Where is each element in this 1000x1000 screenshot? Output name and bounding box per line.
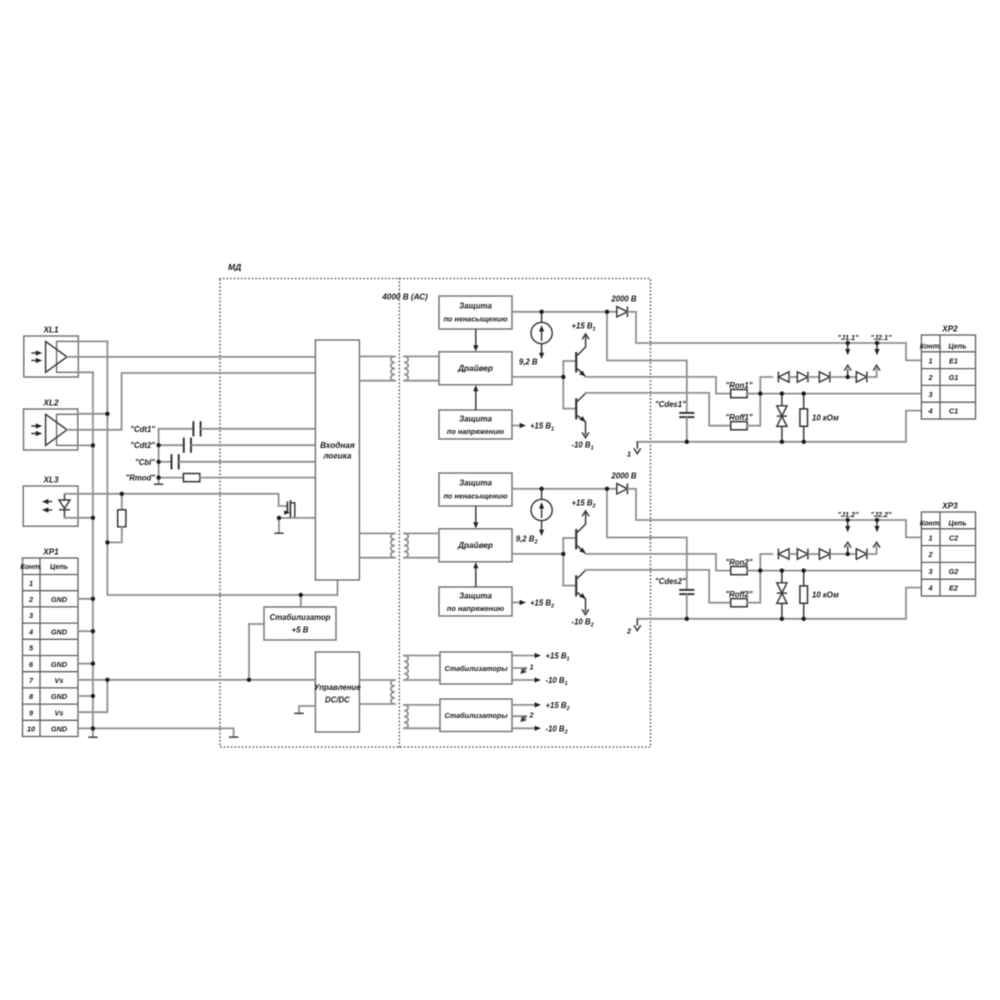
svg-text:4: 4	[927, 407, 932, 416]
XL2 light input arrows	[31, 425, 39, 427]
svg-text:2000 В: 2000 В	[610, 295, 637, 304]
svg-text:"Cdes1": "Cdes1"	[655, 400, 686, 409]
capacitor Cdt2	[184, 438, 191, 453]
arrow +15V supply ch2	[582, 511, 589, 516]
wire turn-on path ch1	[586, 377, 731, 394]
svg-text:Управление: Управление	[314, 683, 361, 692]
junction suppressor bottom node ch2	[780, 617, 784, 621]
svg-text:4000 В (АС): 4000 В (АС)	[381, 293, 428, 302]
stabilizer ch1 common output	[512, 667, 526, 669]
svg-text:Vs: Vs	[55, 708, 64, 717]
wire XL3 anode to MOSFET gate	[65, 494, 287, 506]
svg-text:Цепь: Цепь	[50, 562, 68, 571]
transistor upper (turn-on) ch2	[563, 513, 585, 554]
wire collector-sense to XP3 pin1	[628, 489, 921, 538]
junction MOSFET source node	[277, 516, 281, 520]
wire XP1 pin2 GND stub	[78, 598, 93, 600]
junction 10k / emitter rail ch2	[802, 617, 806, 621]
svg-text:C1: C1	[949, 407, 958, 416]
junction XL3 anode / resistor node	[120, 492, 124, 496]
svg-text:Стабилизаторы: Стабилизаторы	[444, 711, 508, 720]
junction jumper J2.1 / sense line	[875, 341, 879, 345]
resistor body on XL3 line	[118, 510, 126, 527]
wire XP1 pin4 GND stub	[78, 630, 93, 632]
svg-text:10 кОм: 10 кОм	[812, 414, 839, 423]
svg-text:"J2.2": "J2.2"	[870, 510, 892, 519]
wire logic to transformer bottom ch2	[359, 557, 395, 559]
connector XP3 table	[921, 512, 975, 596]
svg-text:E1: E1	[949, 356, 958, 365]
svg-text:Цепь: Цепь	[948, 518, 966, 527]
stabilizers block ch1	[440, 652, 512, 684]
voltage protection output arrow ch1	[512, 425, 520, 427]
svg-text:2: 2	[28, 595, 33, 604]
diode D3 chain ch2	[819, 549, 830, 560]
junction bus / Cbl	[156, 460, 160, 464]
voltage protection block ch2	[439, 587, 512, 616]
svg-text:1: 1	[530, 663, 534, 672]
wire transformer to driver bottom ch2	[404, 557, 439, 559]
wire XL3 cathode to ground bus	[65, 517, 93, 519]
diode 2000V ch2	[617, 483, 628, 494]
wire chain seg1 ch1	[789, 376, 797, 378]
diode D1 chain ch1	[778, 372, 789, 383]
svg-text:4: 4	[28, 627, 33, 636]
junction driver output node ch1	[561, 375, 565, 379]
svg-text:+5 В: +5 В	[292, 626, 309, 635]
wire 10k bottom lead ch1	[803, 426, 805, 442]
wire Ron1 to gate node	[747, 393, 760, 395]
resistor Roff1	[731, 422, 747, 430]
floating common 1 symbol	[636, 442, 638, 449]
arrow voltage protection to driver ch2	[475, 565, 477, 587]
stabilizer +5V block	[264, 607, 336, 640]
junction driver output node ch2	[561, 552, 565, 556]
wire desat sense line ch1	[512, 311, 615, 313]
wire Cdt1 to input logic	[201, 428, 315, 430]
wire base bus ch2	[562, 538, 564, 586]
wire Cdt2 left segment	[159, 444, 183, 446]
jumper J1.2 arrows	[847, 520, 849, 527]
svg-text:Конт.: Конт.	[20, 562, 42, 571]
wire gate node to XP3 pin3	[760, 570, 921, 572]
arrow -10V supply ch2	[582, 609, 589, 614]
wire Cbl left segment	[159, 461, 171, 463]
jumper J1.1 arrows	[847, 343, 849, 350]
svg-text:GND: GND	[51, 725, 68, 734]
ground symbol inside module	[229, 736, 238, 738]
svg-text:по ненасыщению: по ненасыщению	[443, 492, 508, 501]
svg-text:по напряжению: по напряжению	[447, 604, 505, 613]
junction resistor / supply bus	[105, 540, 109, 544]
resistor Roff2	[731, 599, 747, 607]
wire MOSFET source to ground	[278, 518, 280, 533]
connector XP2 table	[921, 335, 975, 419]
junction XP1 pin4 / ground bus	[91, 629, 95, 633]
diode D2 chain ch1	[797, 372, 808, 383]
junction suppressor top node ch1	[780, 391, 784, 395]
wire DC/DC ground stub	[299, 706, 315, 713]
wire Ron2 to gate node	[747, 570, 760, 572]
junction Vs pin7 / pin9 tie	[105, 678, 109, 682]
arrow voltage protection to driver ch1	[475, 388, 477, 410]
wire XP1 pin9 Vs stub	[78, 680, 107, 712]
wire chain seg3 ch2	[831, 553, 857, 555]
wire XL2 ground pin to bus	[78, 444, 93, 446]
svg-text:1: 1	[627, 450, 631, 459]
svg-text:3: 3	[928, 567, 932, 576]
svg-text:1: 1	[928, 533, 932, 542]
wire secondary 2 bottom to stabilizers 2	[404, 727, 440, 729]
XL1 light input arrows	[31, 352, 39, 354]
wire logic to transformer bottom ch1	[359, 380, 395, 382]
wire +5V stabilizer top lead	[300, 595, 302, 607]
floating common 2 symbol	[636, 619, 638, 626]
svg-text:C2: C2	[949, 533, 958, 542]
wire XP1 pin10 GND to module ground	[78, 728, 234, 736]
capacitor Cbl	[172, 454, 179, 469]
wire Roff1 to gate node	[747, 394, 760, 426]
galvanic isolation dotted line 4000 V	[398, 279, 400, 748]
wire emitter rail to XP2 pin4	[637, 411, 921, 442]
ground symbol under Cdt bus	[154, 483, 163, 485]
diode D2 chain ch2	[797, 549, 808, 560]
svg-text:Стабилизаторы: Стабилизаторы	[444, 664, 508, 673]
wire Cdes branch lower ch2	[686, 595, 688, 619]
wire driver output ch2	[512, 553, 563, 555]
XL3 light output arrows	[46, 501, 53, 503]
svg-text:по напряжению: по напряжению	[447, 427, 505, 436]
connector XL2 housing	[24, 409, 78, 450]
wire chain seg3 ch1	[831, 376, 857, 378]
svg-text:2: 2	[529, 711, 534, 720]
svg-text:Защита: Защита	[459, 592, 492, 601]
wire Cdt1 left segment	[159, 428, 193, 430]
svg-text:G1: G1	[949, 373, 959, 382]
svg-text:XP1: XP1	[42, 548, 59, 557]
wire secondary 1 bottom to stabilizers 1	[404, 679, 440, 681]
diode D4 chain ch2	[856, 549, 867, 560]
wire net Vs from XP1 pin7 to DC/DC control	[78, 679, 315, 681]
svg-text:"Cdt2": "Cdt2"	[130, 441, 155, 450]
ground symbol under bus	[88, 736, 97, 738]
desaturation protection block ch1	[439, 296, 512, 329]
svg-text:G2: G2	[949, 567, 959, 576]
connector XP1 table	[23, 558, 79, 737]
svg-text:"Roff1": "Roff1"	[725, 413, 752, 422]
svg-text:DC/DC: DC/DC	[325, 696, 350, 705]
svg-text:3: 3	[928, 390, 932, 399]
arrow -10V supply ch1	[582, 432, 589, 437]
junction rail / +5V stabilizer top	[299, 593, 303, 597]
stabilizer ch2 common output	[512, 715, 526, 717]
svg-text:9,2 В: 9,2 В	[519, 358, 538, 367]
stabilizer ch1 output +15	[512, 655, 534, 657]
svg-text:2: 2	[927, 373, 932, 382]
svg-text:GND: GND	[51, 660, 68, 669]
wire XL1 supply pin to bus	[78, 340, 107, 342]
wire chain seg2 ch2	[809, 553, 820, 555]
transistor lower (turn-off) ch2	[563, 570, 585, 612]
junction XP1 pin2 / ground bus	[91, 597, 95, 601]
junction Cdes1 / emitter rail	[685, 440, 689, 444]
svg-text:XP2: XP2	[941, 325, 958, 334]
wire turn-off path ch2	[586, 570, 731, 603]
svg-text:XL1: XL1	[42, 326, 58, 335]
svg-text:"Cbl": "Cbl"	[135, 458, 155, 467]
junction gate node ch2	[758, 568, 762, 572]
transistor lower (turn-off) ch1	[563, 393, 585, 435]
svg-text:XL2: XL2	[42, 399, 58, 408]
junction XL2 ground pin / bus	[91, 443, 95, 447]
wire chain seg2 ch1	[809, 376, 820, 378]
svg-text:3: 3	[29, 611, 33, 620]
arrow +15V supply ch1	[582, 334, 589, 339]
wire DC/DC to primary bottom	[359, 703, 395, 705]
wire emitter rail to XP3 pin4	[637, 588, 921, 619]
XL2 receiver sub-block	[57, 414, 78, 445]
junction XP1 pin8 / ground bus	[91, 694, 95, 698]
stabilizer ch1 output -10	[512, 679, 534, 681]
junction jumper tap J1 ch2	[846, 552, 850, 556]
wire XP1 pin6 GND stub	[78, 663, 93, 665]
XL3 transmitter LED	[59, 500, 70, 509]
current source 9,2 V ch1	[531, 312, 552, 344]
wire Cdes branch lower ch1	[686, 418, 688, 442]
wire chain end to jumper J2 ch1	[868, 369, 877, 377]
wire chain seg1 ch2	[789, 553, 797, 555]
jumper J2.1 arrows	[876, 343, 878, 350]
junction gate node ch1	[758, 391, 762, 395]
module MD dashed boundary	[220, 279, 651, 748]
wire secondary 2 top to stabilizers 2	[404, 704, 440, 706]
junction current source tap ch2	[539, 487, 543, 491]
junction XL3 cathode / bus	[91, 516, 95, 520]
svg-text:4: 4	[927, 584, 932, 593]
wire 10k bottom lead ch2	[803, 603, 805, 619]
junction 10k top node ch1	[802, 391, 806, 395]
svg-text:GND: GND	[51, 595, 68, 604]
svg-text:"Cdt1": "Cdt1"	[130, 425, 155, 434]
wire XL1 output to input logic	[67, 356, 315, 358]
XL1 receiver sub-block	[57, 341, 79, 372]
wire Cdes branch upper ch1	[607, 312, 687, 412]
capacitor Cdt1	[193, 421, 200, 436]
diode D3 chain ch1	[819, 372, 830, 383]
svg-text:1: 1	[928, 356, 932, 365]
XL2 receiver amplifier triangle	[46, 414, 67, 445]
transformer DC/DC secondary winding 1	[404, 656, 408, 680]
DC/DC control block	[315, 652, 359, 732]
svg-text:1: 1	[29, 579, 33, 588]
resistor Ron2	[731, 567, 747, 575]
svg-text:"Rmod": "Rmod"	[126, 474, 156, 483]
junction 10k top node ch2	[802, 568, 806, 572]
voltage protection block ch1	[439, 410, 512, 439]
svg-text:2: 2	[626, 627, 631, 636]
svg-text:Защита: Защита	[459, 415, 492, 424]
wire XP1 pin8 GND stub	[78, 695, 93, 697]
junction Cdes tap ch1	[605, 310, 609, 314]
MOSFET source arrow	[284, 510, 290, 514]
svg-text:2: 2	[927, 550, 932, 559]
driver block ch1	[439, 352, 512, 385]
wire transformer to driver bottom ch1	[404, 380, 439, 382]
junction jumper J1.2 / sense line	[846, 518, 850, 522]
capacitor Cdes1	[679, 413, 694, 417]
junction jumper J2.2 / sense line	[875, 518, 879, 522]
junction Cdes tap ch2	[605, 487, 609, 491]
junction jumper J1.1 / sense line	[846, 341, 850, 345]
resistor Rmod	[183, 474, 199, 482]
wire Cdes branch upper ch2	[607, 489, 687, 589]
arrow desat protection to driver ch1	[475, 329, 477, 348]
wire transformer to driver top ch2	[404, 532, 439, 534]
junction current source tap ch1	[539, 310, 543, 314]
svg-text:10: 10	[27, 725, 35, 734]
svg-text:E2: E2	[949, 584, 958, 593]
transistor upper (turn-on) ch1	[563, 336, 585, 377]
junction XP1 pin6 / ground bus	[91, 661, 95, 665]
stabilizer ch2 output -10	[512, 727, 534, 729]
transformer signal ch2	[391, 533, 408, 557]
svg-text:XL3: XL3	[42, 476, 58, 485]
connector XL3 housing	[23, 486, 78, 526]
svg-text:"Cdes2": "Cdes2"	[655, 577, 686, 586]
svg-text:Защита: Защита	[459, 479, 492, 488]
capacitor Cdes2	[679, 590, 694, 594]
stabilizer ch2 output +15	[512, 704, 534, 706]
net Cdt bus vertical	[158, 429, 160, 483]
wire XL2 output to input logic	[67, 373, 315, 430]
wire ground bus vertical	[92, 372, 94, 736]
wire turn-on path ch2	[586, 554, 731, 571]
voltage protection output arrow ch2	[512, 602, 520, 604]
wire Roff2 to gate node	[747, 571, 760, 603]
ground symbol at MOSFET source	[274, 532, 283, 534]
svg-text:Входная: Входная	[320, 441, 355, 450]
junction bus / Rmod	[156, 475, 160, 479]
stabilizers block ch2	[440, 699, 512, 732]
wire driver output ch1	[512, 376, 563, 378]
transistor MOSFET input-blocking	[287, 500, 294, 518]
diode 2000V ch1	[617, 306, 628, 317]
wire resistor top lead	[121, 494, 123, 510]
suppressor (bidirectional zener) ch1	[777, 394, 787, 442]
svg-text:Драйвер: Драйвер	[457, 364, 493, 373]
wire XL1 ground pin to bus	[78, 371, 93, 373]
svg-text:"J2.1": "J2.1"	[870, 333, 892, 342]
wire 10k top lead ch1	[803, 394, 805, 409]
diode D1 chain ch2	[778, 549, 789, 560]
wire Vs branch to +5V stabilizer	[249, 624, 264, 680]
junction suppressor top node ch2	[780, 568, 784, 572]
resistor Ron1	[731, 390, 747, 398]
junction suppressor bottom node ch1	[780, 440, 784, 444]
input logic block (Входная логика)	[315, 340, 359, 580]
wire desat sense line ch2	[512, 488, 615, 490]
current source 9,2 V ch2	[531, 489, 552, 521]
wire secondary 1 top to stabilizers 1	[404, 655, 440, 657]
desaturation protection block ch2	[439, 473, 512, 506]
wire DC/DC to primary top	[359, 679, 395, 681]
junction Cdes2 / emitter rail	[685, 617, 689, 621]
svg-text:2000 В: 2000 В	[610, 472, 637, 481]
XL1 receiver amplifier triangle	[46, 341, 67, 372]
junction Vs / stabilizer branch	[247, 678, 251, 682]
driver block ch2	[439, 529, 512, 562]
transformer DC/DC primary winding	[391, 680, 395, 704]
junction XL2 supply pin / bus	[105, 412, 109, 416]
wire Rmod to input logic	[200, 477, 316, 479]
svg-text:по ненасыщению: по ненасыщению	[443, 315, 508, 324]
wire gate node to diode chain ch2	[760, 554, 772, 571]
suppressor (bidirectional zener) ch2	[777, 571, 787, 619]
svg-text:"J1.2": "J1.2"	[837, 510, 859, 519]
wire XL2 supply pin to bus	[78, 413, 108, 415]
svg-text:GND: GND	[51, 692, 68, 701]
resistor 10 кОм ch1	[800, 409, 808, 426]
wire Cdt2 to input logic	[192, 444, 316, 446]
svg-text:Vs: Vs	[55, 676, 64, 685]
svg-text:"J1.1": "J1.1"	[837, 333, 859, 342]
wire gate node to diode chain ch1	[760, 377, 772, 394]
jumper J2.2 arrows	[876, 520, 878, 527]
svg-text:Цепь: Цепь	[948, 341, 966, 350]
wire 10k top lead ch2	[803, 571, 805, 586]
wire Rmod left segment	[159, 477, 184, 479]
wire supply bus vertical and +5V rail to logic	[107, 341, 337, 595]
transformer signal ch1	[391, 356, 408, 380]
wire collector-sense to XP2 pin1	[628, 312, 921, 361]
wire transformer to driver top ch1	[404, 355, 439, 357]
wire turn-off path ch1	[586, 393, 731, 426]
ground symbol at DC/DC control	[294, 712, 303, 714]
svg-text:"Ron2": "Ron2"	[726, 558, 753, 567]
junction 10k / emitter rail ch1	[802, 440, 806, 444]
junction bus / Cdt2	[156, 443, 160, 447]
transformer DC/DC secondary winding 2	[404, 705, 408, 728]
diode D4 chain ch1	[856, 372, 867, 383]
junction jumper tap J1 ch1	[846, 375, 850, 379]
svg-text:"Ron1": "Ron1"	[726, 381, 753, 390]
MOSFET drain wire to input logic	[290, 517, 315, 519]
wire Cbl to input logic	[180, 461, 316, 463]
svg-text:Конт.: Конт.	[920, 518, 942, 527]
wire resistor bottom lead to supply bus	[107, 527, 121, 543]
wire base bus ch1	[562, 361, 564, 409]
svg-text:логика: логика	[322, 452, 352, 461]
wire logic to transformer top ch1	[359, 355, 395, 357]
svg-text:GND: GND	[51, 627, 68, 636]
svg-text:Конт.: Конт.	[920, 341, 942, 350]
svg-text:"Roff2": "Roff2"	[725, 590, 752, 599]
svg-text:Стабилизатор: Стабилизатор	[270, 613, 331, 622]
wire chain end to jumper J2 ch2	[868, 546, 877, 554]
svg-text:Защита: Защита	[459, 302, 492, 311]
resistor 10 кОм ch2	[800, 586, 808, 603]
wire gate node to XP2 pin3	[760, 393, 921, 395]
svg-text:МД: МД	[228, 262, 241, 272]
svg-text:XP3: XP3	[941, 502, 958, 511]
connector XL1 housing	[24, 336, 79, 377]
svg-text:Драйвер: Драйвер	[457, 541, 493, 550]
junction pin10 / ground bus	[91, 726, 95, 730]
svg-text:10 кОм: 10 кОм	[812, 591, 839, 600]
arrow desat protection to driver ch2	[475, 506, 477, 525]
wire MOSFET source lead	[279, 517, 291, 519]
wire logic to transformer top ch2	[359, 532, 395, 534]
